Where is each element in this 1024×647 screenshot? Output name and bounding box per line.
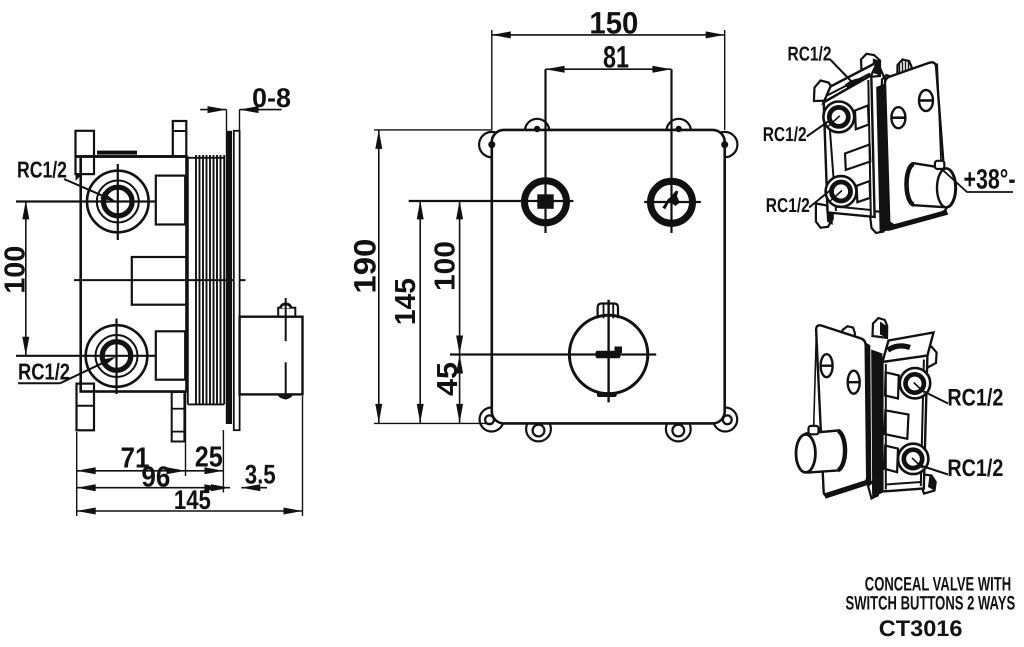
svg-text:3.5: 3.5 — [245, 460, 276, 490]
svg-text:25: 25 — [195, 442, 223, 474]
svg-text:100: 100 — [0, 246, 32, 294]
svg-text:150: 150 — [589, 6, 638, 41]
svg-text:RC1/2: RC1/2 — [788, 44, 832, 66]
svg-text:145: 145 — [390, 278, 422, 325]
svg-text:145: 145 — [174, 485, 211, 515]
svg-text:96: 96 — [141, 462, 170, 494]
svg-text:81: 81 — [603, 40, 629, 75]
svg-text:SWITCH BUTTONS 2 WAYS: SWITCH BUTTONS 2 WAYS — [846, 592, 1016, 614]
svg-text:RC1/2: RC1/2 — [18, 358, 70, 384]
svg-text:RC1/2: RC1/2 — [947, 384, 1003, 411]
svg-text:RC1/2: RC1/2 — [17, 156, 67, 182]
svg-text:45: 45 — [432, 362, 464, 396]
svg-text:CT3016: CT3016 — [879, 616, 963, 641]
svg-text:RC1/2: RC1/2 — [766, 195, 810, 217]
svg-text:RC1/2: RC1/2 — [763, 124, 807, 146]
svg-text:190: 190 — [348, 239, 383, 294]
svg-text:100: 100 — [430, 241, 462, 291]
svg-text:RC1/2: RC1/2 — [947, 455, 1003, 482]
svg-text:+38°-: +38°- — [964, 164, 1016, 195]
